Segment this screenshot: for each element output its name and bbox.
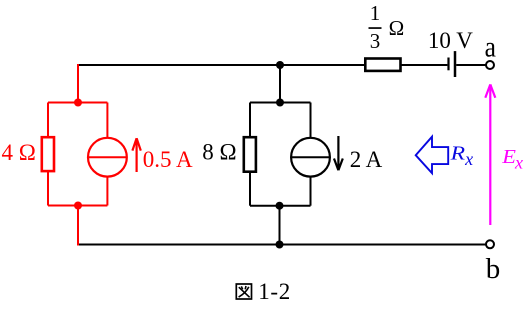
wire red left branch lower <box>47 172 49 206</box>
current source I2 circle <box>291 138 330 177</box>
terminal a <box>486 61 494 69</box>
arrow Rx block blue <box>416 137 449 174</box>
wire left branch upper black <box>249 103 251 138</box>
svg-text:E: E <box>501 145 516 168</box>
node red junction bottom <box>74 202 82 210</box>
wire red left branch upper <box>47 103 49 138</box>
node junction middle bottom <box>276 202 284 210</box>
wire red parallel bottom horizontal <box>48 205 107 207</box>
wire right branch upper black <box>310 103 312 139</box>
battery V1 short plate <box>447 58 449 71</box>
svg-text:3: 3 <box>370 29 381 53</box>
svg-text:0.5 A: 0.5 A <box>143 147 193 172</box>
wire middle branch upper stem <box>279 65 281 103</box>
svg-text:8 Ω: 8 Ω <box>202 139 236 164</box>
arrow Ex magenta head <box>485 84 495 97</box>
resistor 1/3 ohm <box>365 59 400 71</box>
svg-text:2 A: 2 A <box>350 147 383 172</box>
arrow Ex magenta line <box>489 85 491 225</box>
wire left branch lower black <box>249 172 251 206</box>
label 1/3 ohm fraction bar <box>369 27 382 29</box>
svg-text:10 V: 10 V <box>428 28 473 53</box>
current source I2 chord <box>292 156 330 158</box>
svg-text:1-2: 1-2 <box>258 279 291 304</box>
wire right branch lower black <box>310 176 312 206</box>
svg-text:Ω: Ω <box>389 16 405 40</box>
current source I1 circle red <box>88 138 127 177</box>
node red junction top <box>74 99 82 107</box>
svg-text:a: a <box>485 31 496 64</box>
svg-text:x: x <box>514 153 523 173</box>
caption kanji zu glyph <box>236 284 251 299</box>
current source I1 chord red <box>89 156 127 158</box>
svg-text:1: 1 <box>370 1 381 25</box>
wire red right branch lower <box>106 176 108 206</box>
wire red bottom stem <box>77 206 79 246</box>
node junction top wire <box>276 61 284 69</box>
svg-text:4 Ω: 4 Ω <box>2 140 36 165</box>
wire red right branch upper <box>106 103 108 139</box>
wire middle branch lower stem <box>279 206 281 245</box>
wire parallel bottom horizontal black <box>250 205 311 207</box>
wire red parallel top horizontal <box>48 102 107 104</box>
wire battery-to-terminal-a <box>456 64 485 66</box>
battery V1 long plate <box>454 51 457 77</box>
arrow 0.5A direction red <box>132 138 140 172</box>
arrow 2A direction <box>334 136 343 170</box>
node junction bottom wire <box>276 241 284 249</box>
wire parallel top horizontal black <box>250 102 311 104</box>
resistor 8 ohm <box>244 137 256 172</box>
wire bottom main <box>78 244 486 246</box>
terminal b <box>486 240 494 248</box>
wire top resistor-to-battery <box>402 64 448 66</box>
svg-text:R: R <box>450 142 465 164</box>
svg-text:b: b <box>486 253 501 285</box>
wire red top stem <box>77 64 79 103</box>
wire top main <box>78 64 364 66</box>
node junction middle top <box>276 99 284 107</box>
resistor 4 ohm <box>42 137 54 171</box>
svg-text:x: x <box>464 149 473 169</box>
